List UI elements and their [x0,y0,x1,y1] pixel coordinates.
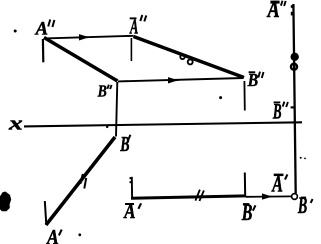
segment A'B' (top projection, thick) [46,137,115,225]
segment A''B'' (front projection, thick) [44,38,118,82]
right end tick at Bbar' [244,173,246,197]
label A' [45,227,62,244]
stray dot near Abar''Bbar'' [219,96,222,99]
tick at Bbar'' on vertical [291,106,294,108]
vertical line (final projecting position) [293,4,295,193]
label Abar' (under left tick) [123,200,141,223]
svg-text:x: x [8,113,23,134]
label A'' [35,19,55,40]
trace above A' [45,201,47,225]
svg-text:B: B [120,132,130,156]
label Abar'' (top of vertical) [266,0,286,23]
arrow on B'' path [168,77,183,83]
double circle marks on vertical [291,53,298,60]
svg-text:A: A [45,227,59,244]
label Bbar'' (on vertical) [272,99,288,123]
label Bbar'' [247,70,264,90]
double circle marks on Abar''Bbar'' [180,55,184,59]
stray dot near A' [78,233,81,236]
projection line B'' to B' [116,82,117,137]
label B'' [97,82,112,101]
x axis [24,122,302,126]
path Bbar' to B' (thin, arrow) [246,195,291,197]
moved top projection Abar'Bbar' (true length, thick) [131,196,246,198]
label B' (right of circle) [297,194,312,219]
stray dot top left [14,30,17,33]
svg-text:B: B [247,70,259,90]
svg-text:B: B [97,82,107,101]
trace below Abar'' [130,38,132,61]
label Bbar' (under right tick) [241,200,256,225]
trace below A'' [42,39,45,62]
translation path A'' to Abar'' (thin, arrow) [45,36,134,39]
label Abar' (on vertical, below axis) [271,172,288,198]
svg-text:A: A [35,19,48,40]
nubs on Abar' tick [130,177,133,179]
stray dots right margin [300,157,302,159]
segment Abar''Bbar'' (moved front projection, thick) [134,37,245,78]
left end tick at Abar' [131,177,133,198]
translation path B'' to Bbar'' (thin, arrow) [118,78,244,81]
point B' (open circle, bottom right) [292,194,298,200]
arrow on Bbar' path [262,193,276,199]
stray dot on axis [106,126,108,128]
nubs on vertical top [291,5,293,8]
double tick marks on A'B' [80,174,82,184]
label B' [120,132,131,156]
ink blob at left margin [0,192,11,212]
arrow on A'' path [79,34,94,40]
double tick marks on Abar'Bbar' [195,190,200,201]
label Abar'' [129,14,146,38]
trace below Bbar'' [243,81,245,111]
